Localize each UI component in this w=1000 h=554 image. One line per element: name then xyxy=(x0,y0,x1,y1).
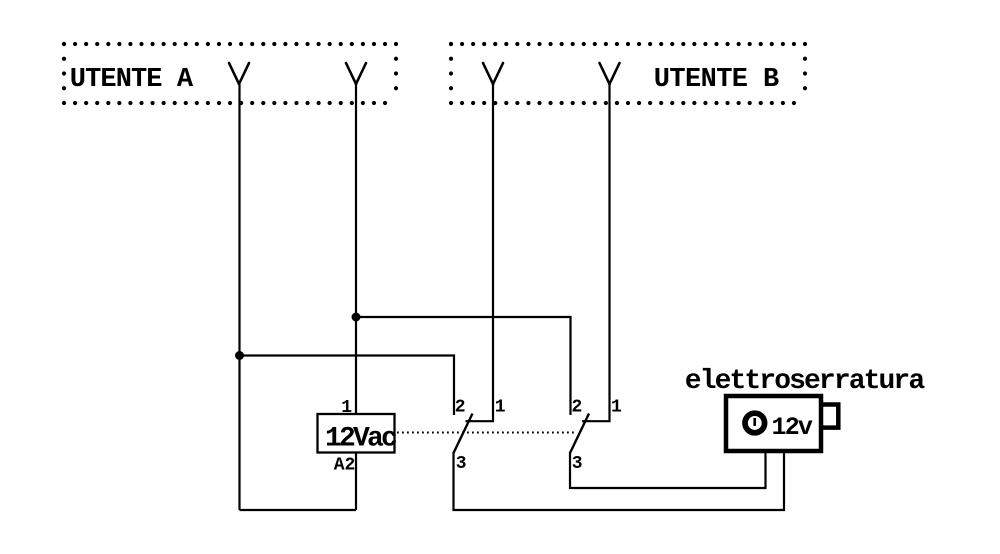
wire A2 vertical to coil pin1 xyxy=(355,84,357,414)
dotted box UTENTE A xyxy=(64,44,396,103)
keyhole icon xyxy=(745,413,765,433)
svg-text:12v: 12v xyxy=(772,413,813,442)
dotted box UTENTE B xyxy=(451,44,805,103)
antenna terminal B1 xyxy=(483,63,503,84)
lock side tab xyxy=(822,405,838,428)
relay coil K1 box xyxy=(318,414,395,453)
wire horizontal y355 to switch S1 pin2 xyxy=(240,356,455,416)
svg-text:1: 1 xyxy=(495,398,506,418)
antenna terminal A2 xyxy=(346,63,366,84)
antenna terminal B2 xyxy=(600,63,620,84)
svg-text:elettroserratura: elettroserratura xyxy=(685,366,926,397)
svg-text:UTENTE A: UTENTE A xyxy=(70,65,194,95)
wire horizontal y317 to switch S2 pin2 xyxy=(356,317,571,415)
wire S2 pin3 down and mid run to lock xyxy=(570,452,766,488)
junction dot node at A1/y355 xyxy=(235,351,244,360)
wire A1 vertical xyxy=(238,84,240,510)
svg-text:1: 1 xyxy=(341,398,352,418)
svg-text:3: 3 xyxy=(572,454,583,474)
svg-text:2: 2 xyxy=(455,398,466,418)
electric lock box xyxy=(726,396,821,451)
wire B2 vertical to switch S2 pin1 xyxy=(582,84,610,421)
svg-text:UTENTE B: UTENTE B xyxy=(654,65,779,95)
svg-text:A2: A2 xyxy=(334,456,356,476)
junction dot node at A2/y317 xyxy=(352,313,361,322)
svg-text:2: 2 xyxy=(572,398,583,418)
mechanical link dotted line xyxy=(397,432,577,434)
antenna terminal A1 xyxy=(229,63,249,84)
switch S1 arm (pin3 to pin1) xyxy=(454,414,473,454)
wire B1 vertical to switch S1 pin1 xyxy=(466,84,494,421)
svg-text:1: 1 xyxy=(611,398,622,418)
wire S1 pin3 down and bottom run to lock xyxy=(454,452,785,510)
svg-text:12Vac: 12Vac xyxy=(325,423,397,454)
wire coil A2 down xyxy=(355,453,357,511)
switch S2 arm (pin3 to pin1) xyxy=(570,414,589,454)
wire bottom coil loop xyxy=(240,509,357,511)
svg-text:3: 3 xyxy=(456,454,467,474)
